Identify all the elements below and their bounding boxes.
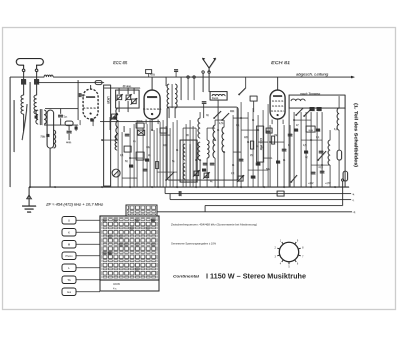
- svg-text:Gemessene Spannungsangaben ± 1: Gemessene Spannungsangaben ± 10%: [171, 242, 216, 246]
- svg-text:Continental: Continental: [173, 274, 200, 279]
- svg-text:U: U: [68, 219, 70, 223]
- svg-text:TA: TA: [67, 278, 71, 282]
- svg-text:K: K: [68, 231, 70, 235]
- svg-text:I 1150 W – Stereo Musiktruhe: I 1150 W – Stereo Musiktruhe: [206, 272, 306, 281]
- svg-text:Zwischenfrequenzen: 454/468 k: Zwischenfrequenzen: 454/468 kHz (Sonnenw…: [171, 223, 257, 227]
- svg-text:Phono: Phono: [66, 255, 74, 258]
- svg-text:UKW: UKW: [113, 282, 120, 286]
